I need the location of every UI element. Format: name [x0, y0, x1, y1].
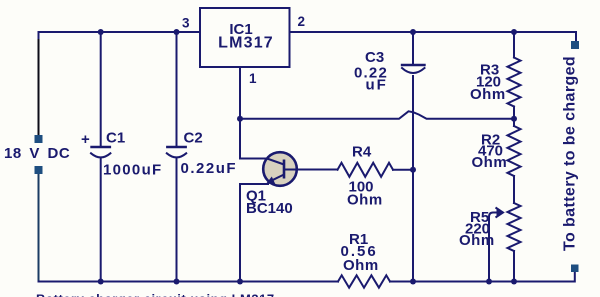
svg-text:0.22uF: 0.22uF [181, 160, 238, 177]
svg-text:C1: C1 [106, 130, 125, 147]
svg-text:1000uF: 1000uF [103, 162, 163, 179]
svg-text:Battery charger circuit using: Battery charger circuit using LM317 [36, 292, 275, 297]
svg-text:1: 1 [249, 71, 257, 86]
svg-text:Ohm: Ohm [347, 192, 383, 209]
svg-text:2: 2 [298, 14, 306, 29]
svg-text:Ohm: Ohm [472, 154, 508, 171]
svg-text:R4: R4 [352, 144, 372, 161]
svg-text:Ohm: Ohm [459, 232, 495, 249]
svg-text:LM317: LM317 [218, 35, 274, 52]
svg-text:C3: C3 [365, 49, 384, 66]
svg-text:C2: C2 [184, 130, 203, 147]
svg-text:To battery to be charged: To battery to be charged [562, 56, 579, 251]
svg-text:+: + [81, 131, 90, 148]
svg-text:BC140: BC140 [246, 200, 293, 217]
svg-text:Ohm: Ohm [343, 257, 379, 274]
svg-text:uF: uF [366, 77, 388, 94]
svg-text:Ohm: Ohm [470, 86, 506, 103]
svg-text:3: 3 [182, 16, 190, 31]
svg-text:18 V DC: 18 V DC [4, 145, 70, 162]
